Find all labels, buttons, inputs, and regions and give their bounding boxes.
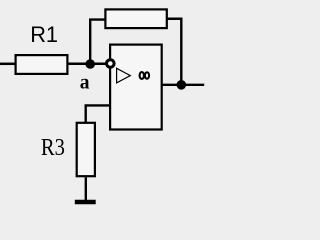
op-amp infinity symbol (140, 72, 144, 79)
svg-text:R1: R1 (30, 22, 58, 47)
resistor R1 (16, 55, 68, 74)
resistor R2 feedback (105, 9, 166, 28)
svg-text:R3: R3 (41, 134, 65, 161)
wire output (162, 84, 204, 86)
op-amp triangle (117, 68, 131, 83)
node a junction dot (85, 59, 95, 69)
wire node a (69, 63, 107, 66)
resistor R3 (77, 123, 95, 176)
wire input lead (0, 63, 16, 66)
wire R3 to ground (85, 177, 87, 200)
wire feedback right (167, 19, 182, 85)
svg-text:a: a (80, 72, 90, 93)
ground bar (75, 200, 96, 205)
op-amp U1 box (110, 45, 162, 130)
op-amp inverting input circle (107, 60, 115, 68)
wire non-inverting input (86, 105, 110, 122)
output junction dot (177, 80, 187, 90)
wire feedback left (90, 20, 106, 64)
